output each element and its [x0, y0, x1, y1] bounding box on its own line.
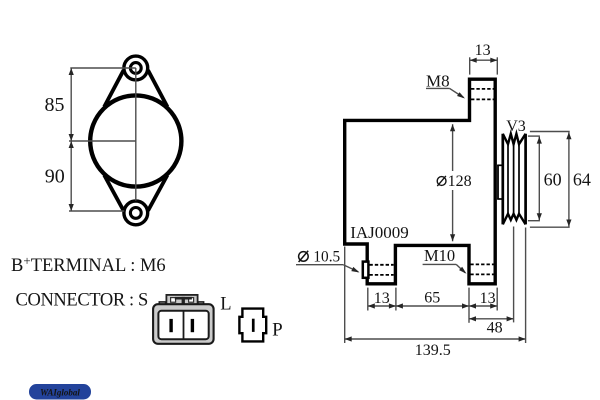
- svg-text:60: 60: [544, 170, 562, 190]
- 64 extension bottom: [530, 226, 570, 228]
- diameter symbol of 10.5: [299, 252, 309, 262]
- front view: bottom mounting hole outer ring: [124, 201, 148, 225]
- front view: bottom mounting ear right line: [148, 175, 167, 211]
- bottom extension line left foot left: [367, 288, 369, 311]
- svg-text:M8: M8: [426, 72, 450, 91]
- 139.5 extension line left: [344, 247, 346, 344]
- svg-text:65: 65: [424, 290, 440, 307]
- arrow down at center (85): [69, 134, 74, 141]
- front view: bottom hole extension line: [69, 210, 124, 212]
- svg-text:B+TERMINAL : M6: B+TERMINAL : M6: [11, 253, 166, 276]
- front view: vertical center line: [135, 68, 137, 201]
- front view: stator body circle: [90, 95, 181, 186]
- dimension 13 stud: right extension line: [496, 57, 498, 74]
- bottom extension line right foot left: [468, 288, 470, 323]
- 60 extension top: [528, 135, 540, 137]
- svg-text:128: 128: [448, 173, 472, 190]
- M10 underline: [423, 263, 457, 265]
- S connector: right bump: [198, 302, 204, 305]
- side view: M8 stud hidden thread line 2: [471, 98, 494, 100]
- 48 extension line at pulley center: [513, 227, 515, 323]
- side view: left foot hidden hole line 1: [369, 264, 393, 266]
- svg-text:13: 13: [475, 42, 491, 59]
- side view: left foot hidden hole line 2: [369, 274, 393, 276]
- dimension 13 stud: left extension line: [469, 57, 471, 74]
- pulley left edge: [501, 134, 504, 225]
- svg-text:13: 13: [480, 290, 496, 307]
- pulley groove line 2: [513, 145, 515, 213]
- front view: top mounting ear left line: [104, 70, 123, 107]
- arrow up: [450, 124, 455, 131]
- bottom extension line left foot right: [395, 288, 397, 311]
- svg-text:CONNECTOR : S: CONNECTOR : S: [16, 291, 149, 311]
- pulley top v-groove zigzag: [503, 134, 526, 144]
- pulley groove line 1: [507, 145, 509, 213]
- M8 leader line: [450, 88, 464, 97]
- dimension diameter 128 line lower segment: [452, 190, 454, 241]
- dimension line 48: [469, 318, 514, 320]
- svg-text:V3: V3: [506, 118, 526, 135]
- bottom extension line right foot right: [496, 288, 498, 311]
- 60 extension bottom: [528, 220, 540, 222]
- arrow down at bottom hole: [69, 204, 74, 211]
- arrow left: [470, 58, 477, 63]
- S connector: body: [153, 304, 214, 344]
- pulley bottom v-groove zigzag: [503, 214, 526, 225]
- arrow up at top hole: [69, 68, 74, 75]
- arrows of bottom dims: [368, 303, 375, 308]
- 10.5 leader underline: [296, 264, 343, 266]
- front view: top mounting hole inner ring: [130, 63, 141, 74]
- S connector: left bump: [159, 302, 165, 305]
- arrow right: [490, 58, 497, 63]
- S connector: tab window right: [189, 298, 194, 303]
- front view: top hole extension line: [70, 67, 136, 69]
- 10.5 leader arrow: [351, 267, 359, 273]
- side view: front hole boss: [363, 262, 369, 278]
- M10 leader diagonal: [456, 264, 465, 272]
- S connector: tab center bar: [175, 297, 192, 300]
- P connector: body: [239, 309, 266, 342]
- front view: horizontal center line: [69, 140, 136, 142]
- svg-text:L: L: [220, 295, 231, 315]
- front view: top mounting hole outer ring: [124, 56, 148, 80]
- svg-text:P: P: [272, 320, 283, 341]
- front view: bottom mounting ear left line: [104, 175, 123, 211]
- logo plate: [29, 384, 91, 400]
- front view: bottom mounting hole inner ring: [130, 208, 141, 219]
- svg-text:85: 85: [45, 94, 65, 116]
- arrow down: [450, 234, 455, 241]
- side view: M8 stud hidden thread line 1: [471, 88, 494, 90]
- dimension line 139.5: [345, 338, 526, 340]
- S connector: divider: [183, 311, 185, 339]
- dimension diameter 128 line upper segment: [452, 124, 454, 171]
- 64 extension top: [530, 131, 570, 133]
- arrow up at center (90): [69, 141, 74, 148]
- bottom dimension line 13-65-13: [368, 305, 497, 307]
- svg-text:WAIglobal: WAIglobal: [40, 387, 80, 397]
- svg-text:48: 48: [487, 319, 503, 336]
- side view: housing outline: [345, 79, 496, 284]
- dimension 13 stud: dimension line: [470, 59, 498, 61]
- 10.5 leader diagonal: [343, 265, 358, 272]
- S connector: left pin: [169, 319, 172, 332]
- side view: right foot hidden hole line 1: [470, 263, 494, 265]
- dimension line 64: [568, 132, 570, 226]
- S connector: tab center stem: [182, 297, 185, 305]
- pulley groove line 3: [518, 145, 520, 213]
- svg-text:90: 90: [45, 166, 65, 188]
- svg-text:64: 64: [573, 170, 591, 190]
- svg-text:10.5: 10.5: [313, 248, 340, 265]
- pulley right edge: [524, 134, 527, 225]
- side view: shaft spacer: [497, 165, 499, 200]
- svg-text:13: 13: [374, 290, 390, 307]
- front view: top mounting ear right line: [148, 70, 167, 107]
- svg-text:M10: M10: [424, 246, 455, 265]
- svg-text:IAJ0009: IAJ0009: [350, 223, 409, 242]
- M10 leader arrow: [459, 267, 466, 274]
- S connector: right pin: [191, 319, 194, 332]
- svg-text:139.5: 139.5: [415, 342, 451, 359]
- M8 underline: [426, 87, 450, 89]
- S connector: inner cavity: [158, 311, 208, 339]
- dimension line 60: [538, 137, 540, 221]
- diameter symbol of 128: [437, 177, 446, 186]
- S connector: top lock tab: [166, 295, 197, 305]
- P connector: pin: [252, 319, 255, 332]
- 139.5 extension line right: [525, 228, 527, 344]
- M8 leader arrow: [457, 92, 465, 98]
- S connector: tab window left: [171, 298, 176, 303]
- dimension line 85/90: [70, 68, 72, 211]
- side view: right foot hidden hole line 2: [470, 273, 494, 275]
